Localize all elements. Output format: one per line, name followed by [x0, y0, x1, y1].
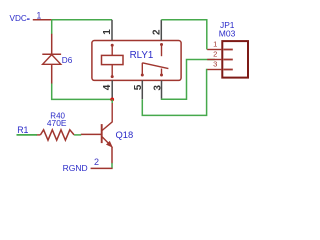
svg-text:Q18: Q18 — [116, 129, 134, 140]
wire VDC rail to RLY1 pin 1 — [52, 19, 112, 21]
svg-text:RLY1: RLY1 — [130, 50, 154, 61]
wire node A to Q18 collector — [111, 99, 113, 103]
svg-text:470E: 470E — [47, 118, 67, 128]
relay pin 5 lead — [141, 80, 143, 99]
relay pin 3 lead — [161, 80, 163, 98]
svg-text:D6: D6 — [62, 56, 73, 65]
JP1 pin 2 — [207, 59, 222, 61]
wire RLY1 pin2 to JP1 pin1 — [161, 20, 207, 50]
svg-text:M03: M03 — [219, 28, 236, 38]
svg-text:2: 2 — [152, 29, 163, 35]
connector JP1 — [207, 20, 248, 78]
JP1 body — [222, 41, 248, 78]
transistor Q18 — [81, 103, 133, 163]
pin 1 (VDC) — [33, 10, 52, 20]
collector lead — [102, 103, 112, 130]
wire R1 to R40 — [17, 134, 38, 136]
coil top lead + dot — [111, 44, 114, 47]
coil bottom lead + dot — [111, 75, 114, 78]
relay body — [92, 41, 181, 81]
svg-text:1: 1 — [36, 10, 41, 20]
port VDC — [10, 14, 30, 23]
svg-text:RGND: RGND — [63, 163, 88, 173]
JP1 pin 3 — [207, 69, 222, 71]
emitter lead with arrow — [102, 137, 112, 147]
pin 2 (RGND) — [91, 157, 113, 168]
wire RLY1 pin3 to JP1 pin2 — [162, 60, 215, 100]
node A junction dot — [110, 98, 114, 102]
resistor R40 — [36, 111, 74, 140]
svg-text:5: 5 — [133, 84, 144, 90]
diode D6 — [42, 34, 72, 84]
svg-text:3: 3 — [153, 85, 164, 91]
svg-text:4: 4 — [102, 84, 113, 90]
switch fixed contact (pin 2) — [160, 43, 163, 46]
wire RLY1 pin5 to JP1 pin3 — [142, 70, 207, 116]
svg-text:1: 1 — [102, 29, 113, 35]
svg-text:R1: R1 — [17, 125, 28, 135]
relay pin 2 lead — [160, 20, 162, 41]
JP1 pin 1 — [207, 49, 222, 51]
wire Q18 emitter to RGND — [111, 163, 113, 168]
svg-text:VDC: VDC — [10, 14, 27, 23]
base lead — [81, 133, 101, 135]
base bar — [101, 124, 103, 143]
switch fixed contact (pin 3) — [160, 74, 163, 77]
wire VDC down to D6 — [51, 20, 53, 35]
svg-text:2: 2 — [213, 50, 217, 59]
relay RLY1 — [92, 41, 181, 81]
relay pin 4 lead — [111, 80, 113, 98]
switch common post (pin 5) — [141, 74, 144, 77]
coil rectangle — [102, 55, 124, 64]
svg-text:3: 3 — [213, 60, 217, 69]
wire R40 to Q18 base — [74, 134, 81, 136]
svg-text:1: 1 — [213, 40, 217, 49]
wire D6 to node A — [52, 84, 111, 100]
switch armature — [142, 63, 168, 69]
svg-text:2: 2 — [94, 157, 99, 167]
relay pin 1 lead — [111, 20, 113, 41]
